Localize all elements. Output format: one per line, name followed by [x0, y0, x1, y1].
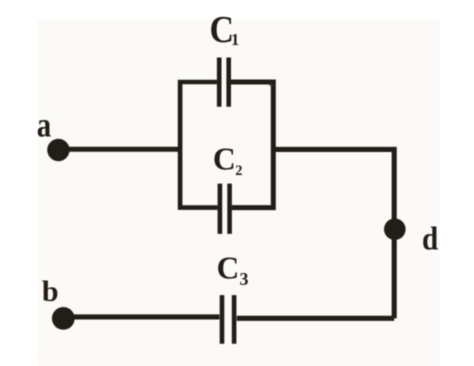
svg-text:a: a — [37, 106, 51, 144]
svg-text:1: 1 — [231, 30, 239, 49]
svg-text:d: d — [422, 221, 438, 257]
svg-text:C: C — [213, 141, 236, 176]
svg-text:3: 3 — [240, 269, 249, 289]
svg-text:C: C — [217, 251, 240, 286]
svg-text:b: b — [42, 275, 59, 308]
svg-text:2: 2 — [235, 163, 242, 179]
